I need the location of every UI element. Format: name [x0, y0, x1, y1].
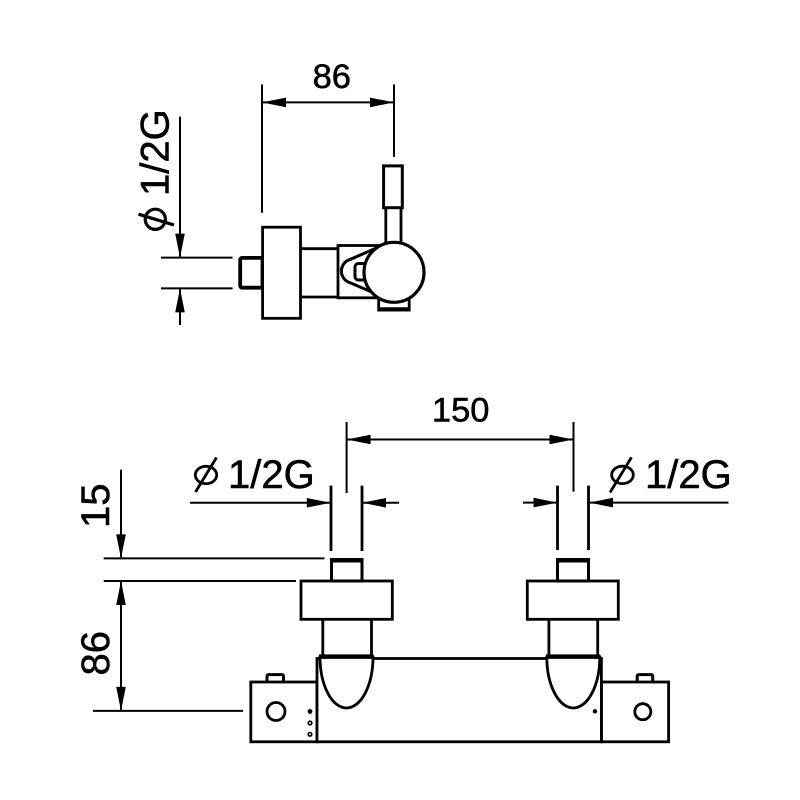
dimension line 150 — [347, 439, 574, 441]
left nut thick top — [330, 558, 364, 562]
extension line connector bottom — [161, 287, 233, 289]
left label phi slash — [196, 458, 217, 493]
outlet thick bottom line — [378, 307, 411, 311]
right dome connection — [547, 657, 600, 708]
label Ø 1/2G rotated (top view) : phi circle — [145, 209, 165, 229]
left nut — [332, 560, 363, 582]
right flange — [527, 581, 618, 619]
outlet fitting below circle — [379, 294, 410, 310]
wall connector square 1/2G (top view) — [240, 258, 262, 288]
extension line bottom (y=710.9) — [93, 710, 243, 712]
left end cap button — [267, 675, 284, 684]
vertical dim line x=121 lower segment (86) — [120, 582, 122, 710]
left leader line with arrows — [190, 502, 331, 504]
main body bar — [317, 659, 601, 742]
right label phi slash — [610, 457, 632, 492]
left flange — [301, 581, 392, 619]
pipe between flange and body bottom line — [301, 296, 339, 299]
valve body square (top view) — [338, 246, 392, 298]
label Ø 1/2G rotated slash — [139, 214, 175, 225]
svg-text:1/2G: 1/2G — [228, 453, 315, 497]
cam wedge shape — [341, 246, 381, 296]
right leader line with arrows — [523, 502, 558, 504]
vertical dim line lower segment with up arrow — [179, 290, 181, 326]
extension line connector top — [161, 257, 233, 259]
arrow down at connector top — [175, 234, 185, 258]
extension line right of 150 — [573, 422, 575, 492]
left end cap — [251, 682, 317, 742]
handle stem lines — [386, 208, 401, 244]
vertical dim line x=121 upper segment (15) — [120, 470, 122, 558]
extension line top (y=558.4) — [104, 557, 325, 559]
right inlet pipe lines — [558, 486, 589, 550]
arrow left of 86 dim — [262, 98, 286, 108]
left inlet pipe lines — [331, 486, 362, 551]
vertical dim line upper segment (Ø1/2G top view) — [179, 117, 181, 257]
extension line right of 86 dim — [393, 84, 395, 157]
svg-text:1/2G: 1/2G — [134, 109, 178, 196]
left label phi circle — [195, 466, 216, 483]
dot right — [593, 709, 597, 713]
right label phi circle — [612, 466, 634, 483]
right end cap button — [637, 675, 653, 684]
dimension line 86 — [262, 101, 394, 103]
right nut thick top — [556, 558, 590, 562]
right dome thick band — [546, 654, 600, 659]
right nut — [558, 560, 589, 582]
right knob circle — [635, 704, 651, 720]
handle grip (top view) — [384, 166, 403, 208]
wall flange (top view) — [263, 227, 301, 318]
small rounded rect on valve — [355, 264, 371, 281]
temperature dots left — [308, 709, 313, 714]
left dome connection — [320, 657, 373, 708]
right end cap — [601, 682, 668, 742]
extension line middle (y=581) — [104, 580, 296, 582]
extension line left of 150 — [346, 422, 348, 493]
left dome thick band — [319, 654, 374, 659]
svg-text:15: 15 — [74, 484, 118, 529]
svg-text:86: 86 — [74, 631, 118, 676]
svg-text:1/2G: 1/2G — [645, 453, 732, 497]
svg-text:150: 150 — [432, 391, 490, 429]
left knob circle — [267, 703, 285, 721]
valve circle (top view) — [364, 242, 424, 302]
right taper connector — [549, 619, 598, 655]
pipe between flange and body top line — [301, 247, 339, 250]
arrow right of 86 dim — [370, 98, 394, 108]
extension line left of 86 dim — [261, 84, 263, 212]
left taper connector — [323, 619, 372, 655]
svg-text:86: 86 — [313, 58, 351, 96]
